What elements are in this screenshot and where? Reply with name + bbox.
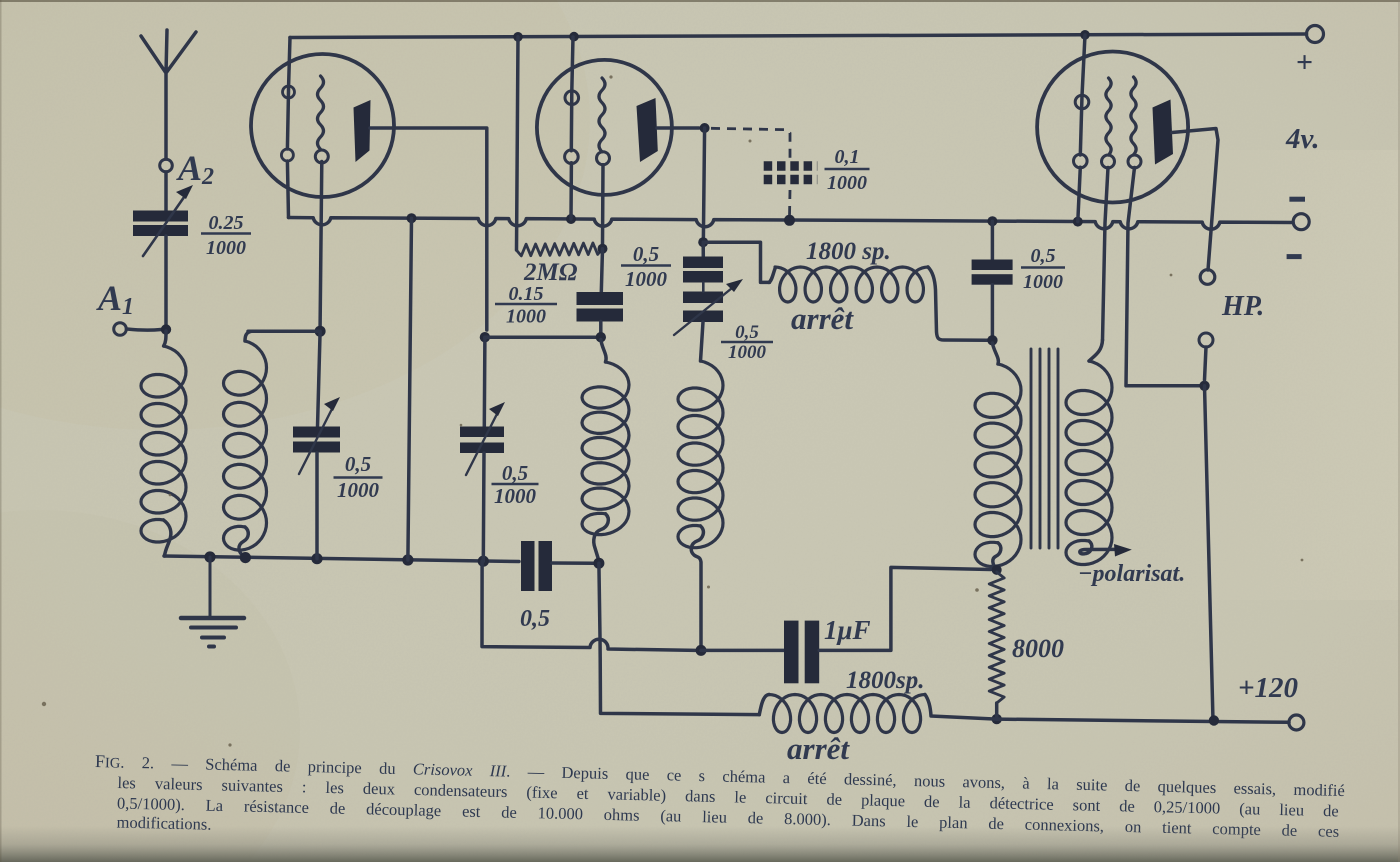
tube V2 filament xyxy=(565,91,579,164)
capacitor 0.1/1000 plates xyxy=(764,166,818,180)
terminal HP top xyxy=(1200,270,1215,285)
label 1uF xyxy=(824,615,871,645)
wire junction A to junction B xyxy=(485,335,601,339)
node plate junction A xyxy=(480,332,490,342)
node V2 filament top xyxy=(569,32,579,42)
capacitor grid condenser xyxy=(577,292,624,322)
resistor 8000 xyxy=(989,572,1004,703)
label 0,5/1000 grid condenser xyxy=(621,242,671,291)
svg-text:1μF: 1μF xyxy=(824,615,871,645)
wire reaction junction to choke xyxy=(703,242,769,282)
tube V1 filament xyxy=(281,86,294,161)
svg-text:0.25: 0.25 xyxy=(209,212,244,234)
node reaction junction xyxy=(698,237,708,247)
svg-text:0,5: 0,5 xyxy=(735,322,759,343)
node junction B xyxy=(596,332,606,342)
wire capacitor to node A1 xyxy=(164,236,168,324)
label +120 xyxy=(1238,672,1298,704)
label minus 2 xyxy=(1287,254,1302,259)
svg-text:1000: 1000 xyxy=(1023,271,1063,293)
transformer core xyxy=(1031,349,1058,548)
tube V3 plate xyxy=(1153,100,1174,165)
tube V2 grid xyxy=(597,78,610,165)
capacitor decoupling 0.5/1000 xyxy=(972,260,1013,285)
tube V3 filament xyxy=(1074,95,1089,168)
wire +120 rail xyxy=(997,719,1289,722)
node 8000 top xyxy=(992,565,1002,575)
node C2 bottom xyxy=(478,556,489,567)
wire V3 filament top xyxy=(1082,35,1085,96)
wire filament rail xyxy=(289,218,1294,230)
node grid leak tap xyxy=(513,32,523,42)
label 2 Mohm xyxy=(523,259,578,286)
wire V3 filament bottom xyxy=(1078,167,1081,221)
wire 1uF junction to cap xyxy=(701,649,784,653)
label plus xyxy=(1296,46,1313,79)
capacitor 1uF xyxy=(784,621,819,684)
svg-text:1000: 1000 xyxy=(206,237,246,259)
resistor 2 Mohm xyxy=(517,243,603,256)
node grid leak right xyxy=(598,244,608,254)
antenna xyxy=(141,30,196,159)
svg-text:2MΩ: 2MΩ xyxy=(523,259,578,286)
terminal A1 xyxy=(114,323,127,336)
node ground stem xyxy=(204,551,215,562)
inductor choke 1800sp output xyxy=(759,695,996,733)
svg-text:4v.: 4v. xyxy=(1285,123,1320,155)
svg-text:0,5: 0,5 xyxy=(345,452,371,476)
transformer primary winding xyxy=(975,343,1021,570)
label 8000 xyxy=(1012,634,1064,663)
wire junction to C1 xyxy=(318,331,321,427)
tube V1 grid xyxy=(315,76,328,163)
node V2 plate junction xyxy=(700,123,710,133)
label HP xyxy=(1221,291,1264,322)
capacitor series 0,5 xyxy=(521,541,552,591)
svg-text:1000: 1000 xyxy=(506,306,546,328)
terminal minus xyxy=(1293,214,1309,230)
terminal plus xyxy=(1307,26,1324,43)
wire plate drop to reaction cap xyxy=(703,128,704,237)
wire V2 plate xyxy=(657,126,699,130)
node HP junction xyxy=(1199,381,1209,391)
ground xyxy=(181,557,244,647)
terminal HP bottom xyxy=(1199,333,1213,347)
wire ground rail to series cap xyxy=(552,561,594,565)
label polarisat xyxy=(1078,561,1185,587)
wire HP junction to +120 rail xyxy=(1205,386,1214,721)
svg-text:0,5: 0,5 xyxy=(633,242,659,266)
caption figure text xyxy=(93,751,1345,860)
label 1800sp output xyxy=(846,667,924,694)
wire V1 filament drop xyxy=(289,38,290,87)
edge shading xyxy=(0,826,1400,862)
wire V3 plate to HP xyxy=(1172,129,1218,271)
svg-text:0,5: 0,5 xyxy=(520,606,550,632)
wire junction C down to +120 rail xyxy=(599,563,759,714)
tube V2 envelope xyxy=(537,60,672,195)
node junction C xyxy=(593,558,604,569)
node decoupling cap top xyxy=(987,216,997,226)
variable capacitor C1 0.5/1000 xyxy=(293,397,340,474)
inductor L1 antenna primary coil xyxy=(141,331,186,556)
svg-text:HP.: HP. xyxy=(1221,291,1264,322)
wire to grid condenser xyxy=(601,249,602,292)
wire HP bottom to junction xyxy=(1205,347,1207,380)
label 0.15/1000 xyxy=(495,283,557,328)
wire decoupling cap to transformer xyxy=(991,285,995,335)
label 0,5/1000 C2 xyxy=(492,461,539,508)
svg-text:0.15: 0.15 xyxy=(509,283,544,305)
wire L2 top xyxy=(248,329,320,333)
wire A2 to antenna capacitor xyxy=(164,172,168,211)
wire secondary top to V3 grid1 xyxy=(1103,168,1109,341)
wire V1 grid drop xyxy=(320,162,322,327)
label 0,1/1000 xyxy=(825,146,870,194)
variable capacitor 0.25/1000 xyxy=(133,185,193,256)
wire grid leak from top rail xyxy=(517,37,519,250)
terminal +120 xyxy=(1289,715,1304,730)
svg-text:1800sp.: 1800sp. xyxy=(846,667,924,694)
svg-text:+120: +120 xyxy=(1238,672,1298,704)
svg-text:1000: 1000 xyxy=(728,342,767,363)
label 0,5/1000 decoupling xyxy=(1021,245,1065,293)
svg-text:0,1: 0,1 xyxy=(835,146,860,168)
node V3 filament top xyxy=(1080,30,1090,40)
node transformer primary top xyxy=(987,335,997,345)
label A2 xyxy=(176,148,214,190)
label minus 1 xyxy=(1289,197,1305,202)
node 8000 bottom xyxy=(992,714,1002,724)
svg-text:1000: 1000 xyxy=(494,484,537,508)
svg-text:1000: 1000 xyxy=(625,267,668,291)
svg-text:8000: 8000 xyxy=(1012,634,1064,663)
svg-text:0,5: 0,5 xyxy=(1031,245,1056,267)
svg-text:+: + xyxy=(1296,46,1313,79)
node V1 grid junction xyxy=(315,326,326,337)
wire junction A to C2 xyxy=(483,337,487,427)
inductor choke 1800sp xyxy=(769,267,987,340)
wire ground rail xyxy=(164,556,519,562)
label arret output xyxy=(787,731,850,766)
variable capacitor reaction 0.5/1000 xyxy=(674,257,743,336)
wire V1 plate xyxy=(370,128,487,330)
wire bypass run to 1uF xyxy=(482,561,695,650)
wire 1uF to 8000 junction xyxy=(819,567,991,650)
svg-text:−polarisat.: −polarisat. xyxy=(1078,561,1185,587)
tube V1 envelope xyxy=(251,54,394,197)
label 0,5/1000 reaction xyxy=(721,322,773,363)
svg-text:0,5: 0,5 xyxy=(502,461,528,485)
terminal A2 xyxy=(160,159,173,172)
wire grid condenser to junction B xyxy=(599,322,603,333)
label 0,5 series xyxy=(520,606,550,632)
wire C1 to ground rail xyxy=(315,453,319,559)
wire rail to decoupling cap xyxy=(991,221,995,260)
label 0.25/1000 xyxy=(201,212,251,259)
wire A1 to junction xyxy=(127,329,162,330)
tube V3 grid 2 xyxy=(1128,77,1141,168)
label arret xyxy=(791,301,854,336)
wire C2 to ground rail xyxy=(482,453,486,561)
capacitor 0.1/1000 dashed xyxy=(711,128,790,216)
tube V3 envelope xyxy=(1037,52,1188,203)
wire V2 filament bottom xyxy=(569,163,573,219)
wire V2 filament top xyxy=(572,37,573,92)
node 1uF junction xyxy=(696,645,707,656)
label 1800 sp xyxy=(806,238,891,265)
svg-text:1800 sp.: 1800 sp. xyxy=(806,238,891,265)
node C1 bottom xyxy=(311,553,322,564)
paper specks xyxy=(42,75,1304,746)
node +120 rail junction xyxy=(1209,715,1219,725)
wire V3 grid2 drop xyxy=(1126,168,1199,386)
inductor L4 xyxy=(678,322,723,645)
node return wire bottom xyxy=(402,554,413,565)
node junction antenna xyxy=(161,324,171,334)
svg-text:1000: 1000 xyxy=(337,478,380,502)
tube V2 plate xyxy=(637,98,658,162)
wire top + rail xyxy=(290,34,1307,38)
label 0,5/1000 C1 xyxy=(334,452,383,502)
warm tint top-left xyxy=(0,0,590,430)
wire 8000 stub xyxy=(995,703,999,719)
node L2 bottom xyxy=(240,552,251,563)
label A1 xyxy=(96,278,134,320)
tube V1 plate xyxy=(354,100,371,162)
svg-text:1000: 1000 xyxy=(827,172,867,194)
inductor L3 xyxy=(582,340,629,562)
inductor L2 secondary coil xyxy=(224,331,267,557)
svg-text:arrêt: arrêt xyxy=(787,731,850,766)
variable capacitor C2 0.5/1000 xyxy=(460,402,505,475)
label 4v xyxy=(1285,123,1320,155)
node V2 filament bottom xyxy=(566,214,576,224)
node V3 filament bottom xyxy=(1073,217,1083,227)
tube V3 grid 1 xyxy=(1102,78,1115,168)
wire V1 filament bottom xyxy=(287,161,288,218)
wire V2 grid drop xyxy=(601,165,605,244)
svg-text:arrêt: arrêt xyxy=(791,301,854,336)
node return tap xyxy=(407,213,417,223)
wire return tap to ground rail xyxy=(408,218,412,560)
transformer secondary winding xyxy=(1066,340,1132,565)
node grid condenser tap xyxy=(784,215,795,226)
